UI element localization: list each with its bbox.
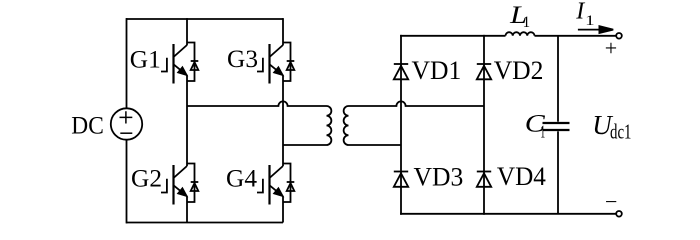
svg-text:1: 1 <box>540 121 545 141</box>
current arrow I1 <box>578 29 602 31</box>
wire: leg1 midpoint to transformer primary top (hop over leg2) <box>187 101 327 106</box>
wire: rectifier right leg (VD2/VD4) <box>483 35 485 215</box>
wire: left rail upper segment <box>126 18 128 108</box>
svg-text:VD1: VD1 <box>412 56 462 85</box>
svg-text:VD3: VD3 <box>414 162 464 191</box>
svg-text:G1: G1 <box>130 46 161 73</box>
diode VD4 <box>477 172 491 187</box>
svg-text:1: 1 <box>523 14 531 31</box>
wire: leg2 emitter lead of G4 to bottom bus <box>282 196 284 222</box>
output minus terminal circle <box>616 211 622 217</box>
transformer primary winding <box>327 106 332 145</box>
svg-text:+: + <box>605 36 617 61</box>
wire: capacitor branch lower <box>557 131 559 214</box>
diode VD1 <box>394 64 408 79</box>
diode VD2 <box>477 64 491 79</box>
transistor G2 (IGBT with antiparallel diode) <box>161 164 198 205</box>
transistor G4 (IGBT with antiparallel diode) <box>257 164 294 205</box>
wire: rectifier bottom bus to output minus terminal <box>400 213 616 215</box>
transistor G3 (IGBT with antiparallel diode) <box>257 43 294 84</box>
wire: leg1 middle segment (G1 emitter to G2 collector) <box>186 75 188 166</box>
wire: leg1 emitter lead of G2 to bottom bus <box>186 196 188 222</box>
inductor L1 <box>506 32 535 36</box>
wire: H-bridge top bus <box>126 18 283 20</box>
output plus terminal circle <box>616 33 622 39</box>
wire: rectifier left leg (VD1/VD3) <box>400 35 402 215</box>
wire: leg2 midpoint to transformer primary bottom <box>283 144 327 146</box>
svg-text:−: − <box>605 189 617 214</box>
wire: left rail lower segment <box>126 140 128 224</box>
wire: secondary top to rectifier right leg (hop over left leg) <box>349 101 485 106</box>
svg-text:dc1: dc1 <box>610 119 632 143</box>
DC source plus sign <box>120 111 133 123</box>
svg-text:G2: G2 <box>131 165 162 192</box>
wire: capacitor branch upper <box>557 36 559 122</box>
DC source V1 circle <box>111 108 142 139</box>
wire: leg2 collector lead of G3 <box>282 18 284 45</box>
svg-text:VD2: VD2 <box>494 56 544 85</box>
svg-text:I: I <box>575 0 585 25</box>
svg-text:DC: DC <box>71 113 104 140</box>
diode VD3 <box>394 172 408 187</box>
capacitor C1 plates <box>543 123 570 130</box>
wire: rectifier top bus <box>400 35 505 37</box>
DC source minus sign <box>120 132 132 134</box>
wire: secondary bottom to rectifier left leg <box>349 144 402 146</box>
svg-text:G4: G4 <box>226 165 257 192</box>
wire: H-bridge bottom bus <box>126 222 283 224</box>
svg-text:G3: G3 <box>227 46 258 73</box>
wire: leg1 collector lead of G1 <box>186 18 188 45</box>
transistor G1 (IGBT with antiparallel diode) <box>161 43 198 84</box>
svg-text:1: 1 <box>585 13 595 29</box>
wire: leg2 middle segment (G3 emitter to G4 collector) <box>282 75 284 166</box>
transformer secondary winding <box>344 106 349 145</box>
svg-text:VD4: VD4 <box>497 162 546 191</box>
wire: L1 to output plus terminal <box>535 35 617 37</box>
